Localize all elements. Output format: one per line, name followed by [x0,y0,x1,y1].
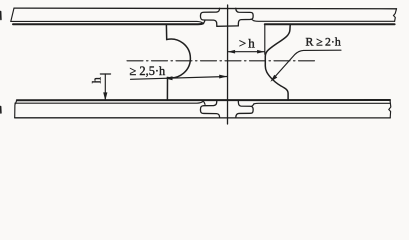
bottom plate inner edge left segment [15,101,203,103]
radius leader line [272,50,341,80]
bottom plate inner edge right segment [254,102,390,105]
top plate outer edge [14,7,397,10]
axis centerline dash-dot [127,60,317,62]
top plate inner edge right segment [254,20,395,23]
right liner recess arc [265,25,290,100]
dimension >= 2,5h: left arrowhead [165,76,173,80]
dimension >= 2,5h: right arrowhead [219,75,227,79]
dimension > h: right arrowhead [257,50,265,54]
radius leader arrowhead [270,75,277,82]
top liner heavy line left segment [13,22,203,25]
weld nugget bottom right finger outline [236,100,253,117]
dimension > h: extension line [264,25,266,54]
left liner recess arc [166,25,190,100]
weld nugget top right finger outline [236,8,253,26]
weld nugget bottom left finger outline [200,100,219,117]
weld nugget bottom-left fusion curl [203,101,205,104]
top liner heavy line right segment [265,23,395,25]
dimension h: arrowhead [103,92,107,100]
top plate left break edge [11,8,14,21]
bottom plate right break edge [389,100,391,118]
weld centerline [227,5,229,124]
weld root line top [217,25,238,27]
dimension > h: left arrowhead [228,50,236,54]
svg-text:h: h [90,76,104,83]
scan streak left margin top [0,12,2,20]
dimension > h: dimension line [228,51,265,53]
weld nugget top left finger outline [200,8,219,26]
svg-text:h: h [248,36,255,51]
top plate right break edge [394,9,397,22]
dimension h: arrow line [104,74,106,100]
weld nugget bottom-right fusion curl to plate edge [252,104,254,106]
svg-text:R: R [306,35,314,49]
svg-text:≥ 2,5·h: ≥ 2,5·h [130,64,167,78]
svg-text:>: > [239,36,246,51]
svg-text:≥: ≥ [316,35,322,49]
bottom liner heavy line (continuous) [17,99,390,101]
svg-text:2·h: 2·h [325,35,341,49]
top plate inner edge left segment [11,21,203,23]
weld nugget top-left fusion curl [203,20,205,23]
dimension h: tick line [100,73,110,75]
weld nugget top-right fusion curl to plate edge [252,20,254,21]
dimension >= 2,5h: dimension line [131,77,228,80]
bottom plate outer edge [15,117,391,119]
bottom plate left break edge [15,100,17,118]
scan streak left margin bottom [0,107,2,114]
